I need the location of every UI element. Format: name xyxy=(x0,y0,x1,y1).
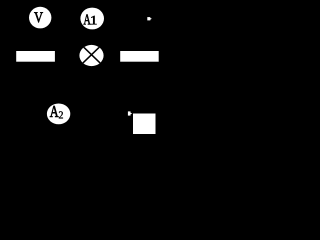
resistor R2 xyxy=(120,51,159,62)
rheostat arrow head (bottom) xyxy=(128,111,132,115)
ammeter A1 xyxy=(80,8,104,30)
ammeter A2 xyxy=(47,104,70,125)
switch arrow head (top) xyxy=(147,17,152,20)
resistor R1 xyxy=(16,51,55,62)
voltmeter V xyxy=(29,7,51,29)
lamp X xyxy=(79,44,103,66)
battery box xyxy=(133,114,156,135)
